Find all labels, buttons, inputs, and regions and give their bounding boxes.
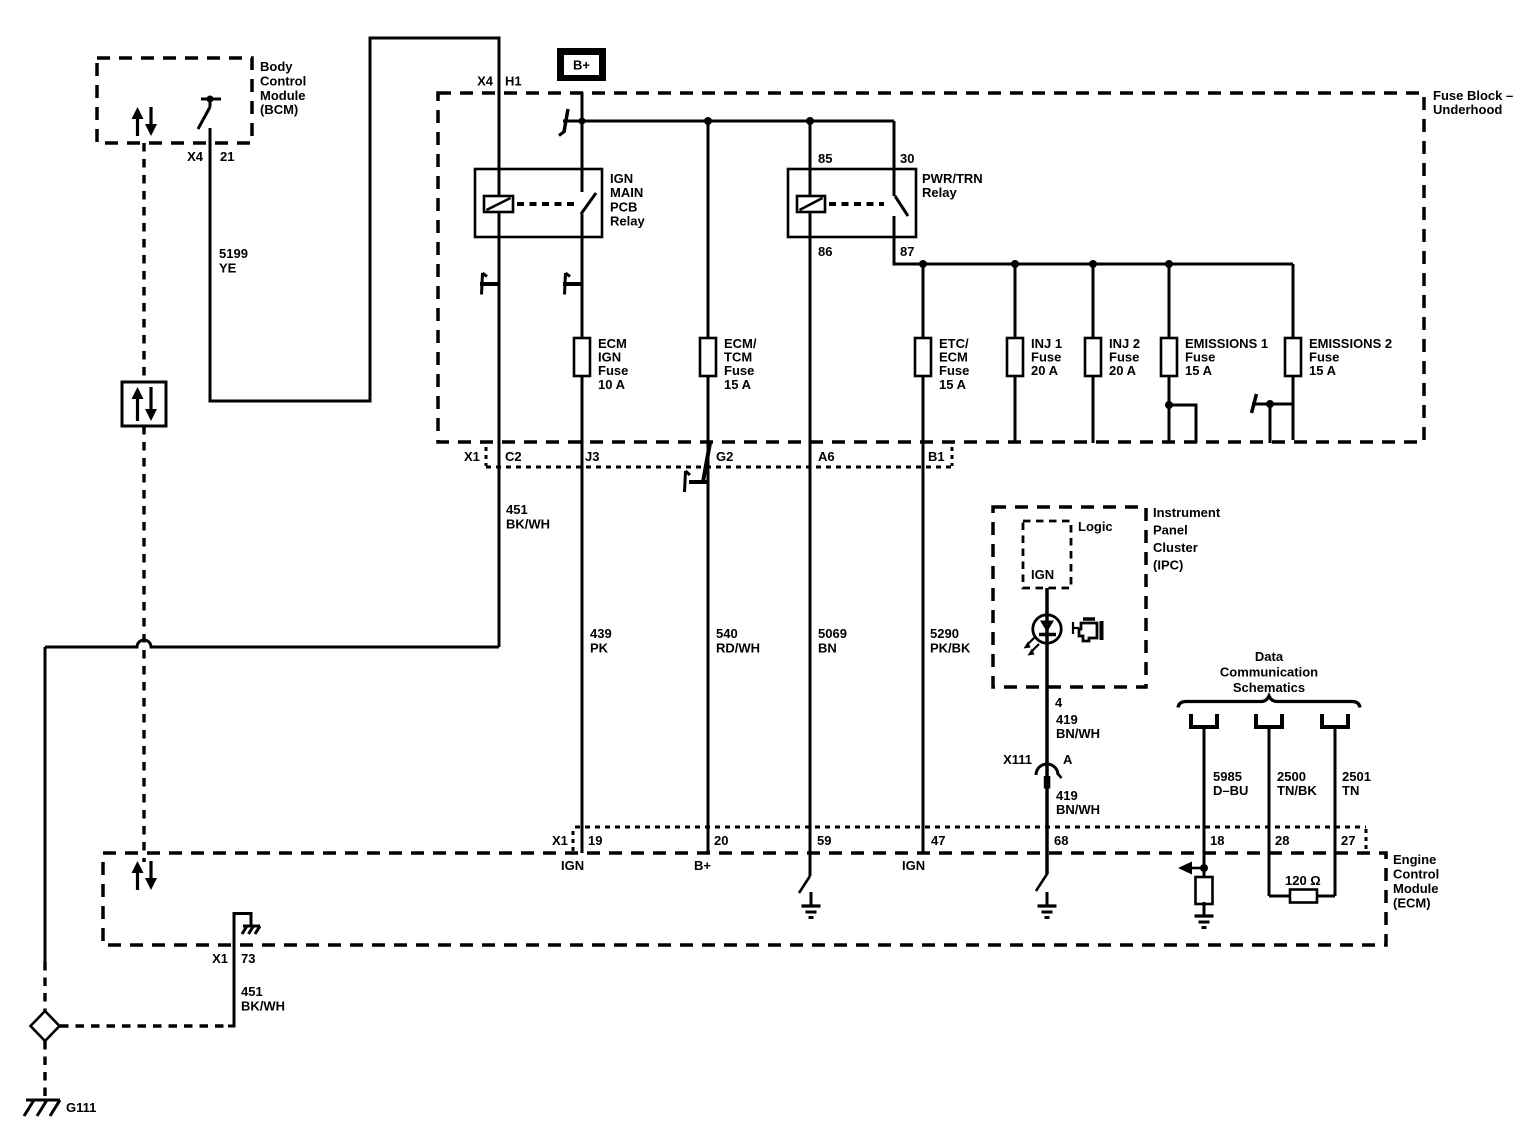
engine MIL icon <box>1072 622 1074 634</box>
dashed wire to splice <box>43 962 46 1011</box>
svg-text:X4: X4 <box>477 74 494 89</box>
IGN relay actuator dashed link <box>517 202 576 206</box>
wire bus down to ECM/TCM fuse <box>707 121 710 338</box>
Instrument Panel Cluster (IPC) box <box>993 507 1146 687</box>
dashed wire splice to ECM pin 73 <box>60 1024 229 1027</box>
wire to EMISSIONS1 fuse <box>1168 264 1171 338</box>
ground at pin 59 <box>810 892 813 906</box>
IGN relay switch blade <box>581 193 596 214</box>
off-page connector 2 <box>1254 714 1258 729</box>
connector on EMISSIONS2 stub <box>1252 394 1257 413</box>
svg-text:15 A: 15 A <box>939 377 967 392</box>
svg-text:4: 4 <box>1055 695 1063 710</box>
splice diamond <box>31 1011 60 1041</box>
connector tick left <box>485 447 488 466</box>
junction pin 18 <box>1200 864 1208 872</box>
junction EMISSIONS2 stub <box>1266 400 1274 408</box>
off-page connector 1 <box>1189 714 1193 729</box>
junction bus / INJ 1 fuse <box>1011 260 1019 268</box>
wire INJ2 fuse to block edge <box>1092 376 1095 443</box>
ECM connector X1 dotted line <box>575 826 1366 829</box>
IGN MAIN PCB Relay box <box>475 169 602 237</box>
svg-text:X111: X111 <box>1003 752 1032 767</box>
boxed serial data symbol <box>122 382 166 426</box>
B+ power feed <box>557 48 606 81</box>
svg-text:IGN: IGN <box>902 858 925 873</box>
ground G111 <box>26 1099 60 1102</box>
fuse ECM IGN 10A <box>574 338 590 376</box>
wire 5985 D-BU <box>1203 729 1206 868</box>
svg-text:BN: BN <box>818 641 837 656</box>
svg-text:15 A: 15 A <box>1185 363 1213 378</box>
PWR relay switch blade <box>895 196 908 216</box>
wire 451 horizontal with hop over data line <box>45 640 499 647</box>
connector pair below IGN relay coil <box>480 282 499 286</box>
fuse EMISSIONS 2 15A <box>1285 338 1301 376</box>
svg-text:73: 73 <box>241 951 255 966</box>
LED triangle <box>1040 621 1054 633</box>
wire PWR relay coil pin 86 to A6 <box>809 212 812 853</box>
dashed data wire to ECM <box>142 426 145 862</box>
svg-text:20 A: 20 A <box>1031 363 1059 378</box>
svg-text:68: 68 <box>1054 833 1068 848</box>
svg-text:Cluster: Cluster <box>1153 540 1198 555</box>
svg-text:Instrument: Instrument <box>1153 505 1221 520</box>
svg-text:(ECM): (ECM) <box>1393 896 1431 911</box>
wire IGN relay coil to C2 (451) <box>498 212 501 647</box>
wire 439 PK (J3 to ECM 19) <box>581 376 584 853</box>
wire 5290 PK/BK (B1 to ECM 47) <box>922 376 925 853</box>
LED bar <box>1039 633 1056 637</box>
Body Control Module (BCM) box <box>97 58 252 143</box>
PWR relay actuator dashed link <box>829 202 884 206</box>
indicator LED circle <box>1033 615 1061 643</box>
svg-text:5069: 5069 <box>818 626 847 641</box>
junction B+/bus <box>579 118 586 125</box>
svg-text:Module: Module <box>1393 881 1439 896</box>
svg-text:Relay: Relay <box>922 185 957 200</box>
svg-text:18: 18 <box>1210 833 1224 848</box>
wire B+ into fuse block <box>581 92 584 192</box>
svg-text:120 Ω: 120 Ω <box>1285 873 1321 888</box>
svg-text:YE: YE <box>219 261 237 276</box>
svg-text:451: 451 <box>241 984 263 999</box>
off-page connector 3 <box>1320 714 1324 729</box>
svg-text:PK: PK <box>590 641 609 656</box>
svg-text:87: 87 <box>900 244 914 259</box>
fuse ETC/ECM 15A <box>915 338 931 376</box>
branch wire to block edge <box>1169 405 1196 443</box>
svg-text:Body: Body <box>260 59 293 74</box>
wire IGN relay switch to ECM IGN fuse <box>581 214 584 338</box>
EMISSIONS2 stub wire <box>1252 403 1293 406</box>
svg-text:IGN: IGN <box>610 171 633 186</box>
svg-text:Logic: Logic <box>1078 519 1113 534</box>
svg-text:Panel: Panel <box>1153 523 1188 538</box>
wire pin 87 to fuse bus <box>894 216 1293 264</box>
junction EMISSIONS1 branch <box>1165 401 1173 409</box>
wire to ETC/ECM fuse <box>922 264 925 338</box>
pin 68 internal switch to ground <box>1046 873 1049 877</box>
wire 451 left vertical <box>44 647 47 962</box>
connector at bus left end <box>564 109 568 132</box>
svg-text:2501: 2501 <box>1342 769 1371 784</box>
IGN relay coil <box>484 196 513 212</box>
svg-text:59: 59 <box>817 833 831 848</box>
wire IGN logic to pin 4 <box>1045 588 1049 874</box>
in-line connector X111 <box>1036 764 1058 775</box>
svg-text:2500: 2500 <box>1277 769 1306 784</box>
serial data arrows in BCM <box>136 118 139 136</box>
svg-text:451: 451 <box>506 502 528 517</box>
svg-text:G2: G2 <box>716 449 733 464</box>
fuse INJ 1 20A <box>1007 338 1023 376</box>
svg-text:Control: Control <box>260 73 306 88</box>
wire EMISSIONS1 fuse down <box>1168 376 1171 443</box>
svg-text:MAIN: MAIN <box>610 185 643 200</box>
svg-text:A6: A6 <box>818 449 835 464</box>
svg-text:PCB: PCB <box>610 199 637 214</box>
connector tick right <box>951 447 954 466</box>
svg-text:86: 86 <box>818 244 832 259</box>
ECM internal ground hook <box>234 914 251 926</box>
svg-text:(IPC): (IPC) <box>1153 558 1183 573</box>
serial data arrows in ECM <box>136 872 139 890</box>
svg-text:PK/BK: PK/BK <box>930 641 971 656</box>
fuse block connector X1 dotted line <box>486 466 951 469</box>
svg-text:Data: Data <box>1255 649 1284 664</box>
svg-text:C2: C2 <box>505 449 522 464</box>
svg-text:419: 419 <box>1056 788 1078 803</box>
svg-text:5985: 5985 <box>1213 769 1242 784</box>
junction bus / INJ 2 fuse <box>1089 260 1097 268</box>
svg-text:BN/WH: BN/WH <box>1056 802 1100 817</box>
wire 540 RD/WH (G2 to ECM 20) <box>707 376 710 853</box>
svg-text:30: 30 <box>900 151 914 166</box>
svg-text:TN: TN <box>1342 783 1359 798</box>
svg-text:IGN: IGN <box>1031 567 1054 582</box>
junction bus / EMISSIONS 1 fuse <box>1165 260 1173 268</box>
Fuse Block - Underhood box <box>438 93 1424 442</box>
Logic box <box>1023 521 1071 588</box>
stub to block edge <box>1269 404 1272 443</box>
dashed data wire from BCM <box>142 143 145 382</box>
Engine Control Module (ECM) box <box>103 853 1386 945</box>
bus wire from B+ <box>563 120 894 123</box>
svg-text:19: 19 <box>588 833 602 848</box>
svg-text:20: 20 <box>714 833 728 848</box>
wire to INJ2 fuse <box>1092 264 1095 338</box>
svg-text:D–BU: D–BU <box>1213 783 1248 798</box>
connector tick left <box>572 831 575 851</box>
wire bus to PWR relay coil pin 85 <box>809 121 812 196</box>
connector pair below IGN relay switch <box>563 282 582 286</box>
wire pin 30 <box>893 121 896 196</box>
svg-text:Underhood: Underhood <box>1433 102 1502 117</box>
svg-text:B+: B+ <box>694 858 711 873</box>
brace <box>1178 696 1360 708</box>
svg-text:540: 540 <box>716 626 738 641</box>
svg-text:B1: B1 <box>928 449 945 464</box>
svg-text:(BCM): (BCM) <box>260 102 298 117</box>
fuse INJ 2 20A <box>1085 338 1101 376</box>
junction bus/PWR relay coil <box>806 117 814 125</box>
PWR/TRN Relay box <box>788 169 916 237</box>
120 ohm resistor between 28 and 27 <box>1269 895 1290 898</box>
svg-text:H1: H1 <box>505 74 522 89</box>
junction 87 bus / ETC-ECM fuse <box>919 260 927 268</box>
svg-text:BN/WH: BN/WH <box>1056 726 1100 741</box>
svg-text:BK/WH: BK/WH <box>506 517 550 532</box>
svg-text:10 A: 10 A <box>598 377 626 392</box>
svg-text:Control: Control <box>1393 867 1439 882</box>
wire 2500 TN/BK <box>1268 729 1271 896</box>
svg-text:15 A: 15 A <box>1309 363 1337 378</box>
svg-text:A: A <box>1063 752 1073 767</box>
ground under resistor <box>1203 902 1206 916</box>
pin 59 internal switch to ground <box>809 853 812 876</box>
svg-text:BK/WH: BK/WH <box>241 999 285 1014</box>
wire 2501 TN <box>1334 729 1337 896</box>
svg-text:RD/WH: RD/WH <box>716 641 760 656</box>
terminating resistor vertical <box>1203 868 1206 877</box>
svg-text:15 A: 15 A <box>724 377 752 392</box>
wire to INJ1 fuse <box>1014 264 1017 338</box>
svg-text:X4: X4 <box>187 149 204 164</box>
svg-text:X1: X1 <box>212 951 228 966</box>
PWR relay coil <box>797 196 825 212</box>
G2 in-line connector symbol <box>703 443 710 482</box>
fuse EMISSIONS 1 15A <box>1161 338 1177 376</box>
dashed wire splice to G111 <box>43 1041 46 1099</box>
svg-text:PWR/TRN: PWR/TRN <box>922 171 983 186</box>
svg-text:IGN: IGN <box>561 858 584 873</box>
wire INJ1 fuse to block edge <box>1014 376 1017 443</box>
switch in BCM <box>201 98 221 101</box>
svg-text:20 A: 20 A <box>1109 363 1137 378</box>
wire 5199 YE <box>210 38 499 401</box>
svg-text:85: 85 <box>818 151 832 166</box>
svg-text:5199: 5199 <box>219 246 248 261</box>
connector tick right <box>1365 829 1368 851</box>
svg-text:28: 28 <box>1275 833 1289 848</box>
svg-text:21: 21 <box>220 149 234 164</box>
LED arrows <box>1027 637 1035 645</box>
svg-text:TN/BK: TN/BK <box>1277 783 1317 798</box>
svg-text:Module: Module <box>260 88 306 103</box>
svg-text:J3: J3 <box>585 449 599 464</box>
svg-text:47: 47 <box>931 833 945 848</box>
wire ECM pin 73 (451 BK/WH) <box>228 912 234 1026</box>
svg-text:X1: X1 <box>552 833 568 848</box>
wire EMISSIONS2 fuse down <box>1292 376 1295 440</box>
svg-text:27: 27 <box>1341 833 1355 848</box>
svg-text:Communication: Communication <box>1220 665 1318 680</box>
svg-text:G111: G111 <box>66 1100 96 1115</box>
fuse ECM/TCM 15A <box>700 338 716 376</box>
svg-text:Engine: Engine <box>1393 852 1436 867</box>
svg-text:X1: X1 <box>464 449 480 464</box>
svg-text:Relay: Relay <box>610 214 645 229</box>
svg-text:419: 419 <box>1056 712 1078 727</box>
svg-text:5290: 5290 <box>930 626 959 641</box>
ground at pin 68 <box>1046 892 1049 906</box>
serial data arrow pin 18 <box>1190 867 1204 870</box>
svg-text:B+: B+ <box>573 58 590 73</box>
svg-text:Fuse Block –: Fuse Block – <box>1433 88 1513 103</box>
svg-text:439: 439 <box>590 626 612 641</box>
junction bus/ECM-TCM fuse <box>704 117 712 125</box>
wire to EMISSIONS2 fuse <box>1292 264 1295 338</box>
